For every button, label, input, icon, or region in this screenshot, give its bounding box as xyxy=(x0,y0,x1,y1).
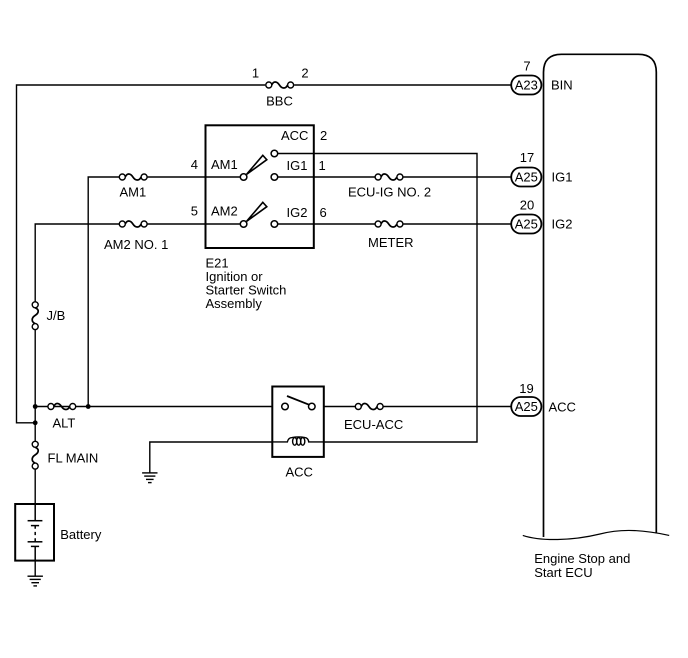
wire ECU-ACC fuse to A25 pin 19 xyxy=(380,406,511,408)
svg-text:2: 2 xyxy=(301,66,308,81)
contact AM2 (pivot) xyxy=(240,221,247,228)
svg-text:AM2: AM2 xyxy=(211,204,238,219)
fusible link BBC xyxy=(266,82,294,88)
fuse AM2 NO. 1 xyxy=(119,221,147,227)
svg-text:IG2: IG2 xyxy=(287,205,308,220)
connector A25 pin 17 xyxy=(511,168,541,187)
svg-text:Start ECU: Start ECU xyxy=(534,565,593,580)
svg-text:IG2: IG2 xyxy=(552,217,573,232)
lever AM1 xyxy=(247,155,267,174)
wire IG1 to ECU-IG NO. 2 fuse xyxy=(278,176,378,178)
contact IG2 xyxy=(271,221,278,228)
fusible link FL MAIN (vertical) xyxy=(32,441,38,469)
ground (battery) xyxy=(28,576,43,586)
svg-text:BBC: BBC xyxy=(266,94,293,109)
wire FL MAIN to battery xyxy=(34,469,36,504)
connector A25 pin 19 xyxy=(511,397,541,416)
connector A25 pin 20 xyxy=(511,215,541,234)
contact AM1 (pivot) xyxy=(240,174,247,181)
svg-text:Battery: Battery xyxy=(60,527,102,542)
svg-text:AM1: AM1 xyxy=(120,185,147,200)
ECU body torn bottom (wave) xyxy=(523,530,669,539)
ignition switch box E21 xyxy=(206,125,314,248)
battery outer box xyxy=(15,504,54,561)
fuse AM1 xyxy=(119,174,147,180)
wire battery feed: BBC fuse left, down left side, to battery rail xyxy=(17,85,266,423)
fuse ECU-IG NO. 2 xyxy=(375,174,403,180)
svg-text:Engine Stop and: Engine Stop and xyxy=(534,551,630,566)
svg-text:A25: A25 xyxy=(515,217,538,232)
svg-text:A25: A25 xyxy=(515,399,538,414)
svg-text:2: 2 xyxy=(320,128,327,143)
fuse METER xyxy=(375,221,403,227)
svg-text:ACC: ACC xyxy=(281,128,308,143)
wire battery to ground xyxy=(34,561,36,576)
svg-text:AM1: AM1 xyxy=(211,157,238,172)
wire METER fuse to A25 pin 20 xyxy=(400,223,511,225)
svg-text:A23: A23 xyxy=(515,78,538,93)
node junction ALT rail / battery column xyxy=(33,404,38,409)
relay ACC switch lever xyxy=(287,396,309,405)
wire relay coil to ground xyxy=(150,442,272,473)
svg-text:20: 20 xyxy=(520,198,534,213)
wire AM1 fuse down to ALT rail junction xyxy=(88,177,122,407)
contact ACC xyxy=(271,150,278,157)
svg-text:ACC: ACC xyxy=(549,400,576,415)
svg-text:Assembly: Assembly xyxy=(206,296,263,311)
svg-text:ALT: ALT xyxy=(53,416,76,431)
svg-text:METER: METER xyxy=(368,235,414,250)
svg-text:19: 19 xyxy=(519,381,533,396)
node junction left feed / battery column xyxy=(33,420,38,425)
wire AM1 fuse to switch AM1 pivot xyxy=(144,176,240,178)
relay ACC box xyxy=(272,387,324,457)
battery cell plates xyxy=(28,504,43,561)
svg-text:BIN: BIN xyxy=(551,78,573,93)
wire IG2 to METER fuse xyxy=(278,223,378,225)
svg-text:7: 7 xyxy=(523,59,530,74)
wire BBC fuse to A23 connector xyxy=(294,84,511,86)
relay ACC switch contact left xyxy=(282,403,289,410)
node junction ALT rail / AM1 column xyxy=(86,404,91,409)
contact IG1 xyxy=(271,174,278,181)
svg-text:FL MAIN: FL MAIN xyxy=(48,451,99,466)
svg-text:17: 17 xyxy=(520,150,534,165)
ECU body outline xyxy=(544,54,657,537)
wire J/B fuse down to battery column xyxy=(34,330,36,442)
wire ALT rail from junction to ACC relay xyxy=(35,406,272,408)
wire ACC pin 2 to relay coil (down right side) xyxy=(278,154,477,443)
svg-text:IG1: IG1 xyxy=(287,158,308,173)
wire relay to ECU-ACC fuse xyxy=(324,406,358,408)
svg-text:5: 5 xyxy=(191,204,198,219)
svg-text:IG1: IG1 xyxy=(552,170,573,185)
svg-text:6: 6 xyxy=(320,205,327,220)
svg-text:ECU-IG NO. 2: ECU-IG NO. 2 xyxy=(348,185,431,200)
wire ECU-IG NO. 2 fuse to A25 pin 17 xyxy=(400,176,511,178)
fuse ALT xyxy=(48,403,76,409)
connector A23 pin 7 xyxy=(511,76,541,95)
ground (relay coil) xyxy=(142,473,157,483)
wire AM2 NO. 1 fuse to switch AM2 pivot xyxy=(144,223,240,225)
svg-text:A25: A25 xyxy=(515,170,538,185)
fuse J/B (vertical) xyxy=(32,302,38,330)
svg-text:1: 1 xyxy=(252,66,259,81)
svg-text:AM2 NO. 1: AM2 NO. 1 xyxy=(104,237,168,252)
svg-text:ECU-ACC: ECU-ACC xyxy=(344,417,403,432)
relay ACC switch contact right xyxy=(309,403,316,410)
relay ACC coil xyxy=(272,437,324,445)
svg-text:ACC: ACC xyxy=(286,465,313,480)
svg-text:1: 1 xyxy=(319,158,326,173)
fuse ECU-ACC xyxy=(355,403,383,409)
lever AM2 xyxy=(247,202,267,221)
svg-text:4: 4 xyxy=(191,157,198,172)
svg-text:J/B: J/B xyxy=(47,308,66,323)
wire AM2 NO. 1 fuse left and down to J/B fuse xyxy=(35,224,122,302)
